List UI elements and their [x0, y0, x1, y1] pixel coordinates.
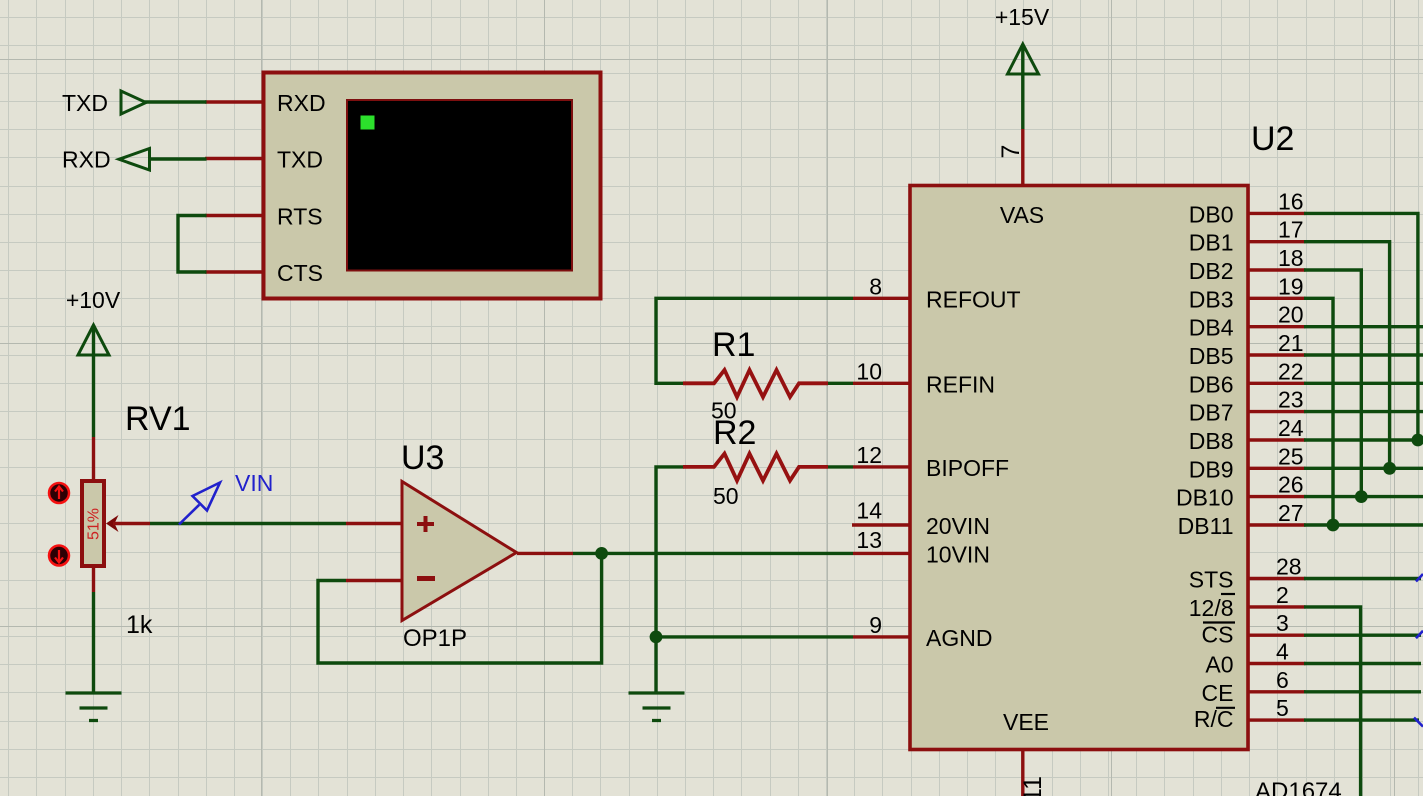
svg-text:RXD: RXD: [62, 147, 111, 173]
pin TXD (terminal): [205, 157, 263, 160]
pin 16 DB0: [1248, 212, 1306, 215]
svg-text:DB4: DB4: [1189, 315, 1234, 341]
wire R1 right to REFIN: [828, 382, 853, 385]
svg-text:A0: A0: [1205, 652, 1233, 678]
pin RV1 top: [92, 437, 95, 481]
svg-text:11: 11: [1019, 776, 1047, 796]
pin RXD (terminal): [205, 100, 263, 103]
pin 26 DB10: [1248, 495, 1306, 498]
pin 3 CS: [1248, 634, 1306, 637]
IC U2 body: [910, 186, 1248, 750]
pin 28 STS: [1248, 577, 1306, 580]
svg-text:CS: CS: [1202, 622, 1234, 648]
ground (under RV1): [66, 693, 122, 721]
svg-text:CE: CE: [1202, 680, 1234, 706]
wire RV1 to ground: [92, 592, 95, 693]
wire A0: [1304, 662, 1421, 665]
op-amp U3 body: [402, 482, 517, 621]
pin 6 CE: [1248, 690, 1306, 693]
svg-text:DB8: DB8: [1189, 428, 1234, 454]
pin 14 20VIN: [852, 523, 910, 526]
wire RXD to TXD pin: [148, 157, 207, 160]
svg-text:RXD: RXD: [277, 90, 326, 116]
svg-text:22: 22: [1278, 358, 1304, 384]
pin 25 DB9: [1248, 467, 1306, 470]
junction DB2/DB10: [1355, 490, 1368, 503]
wire CE: [1304, 690, 1421, 693]
svg-text:20VIN: 20VIN: [926, 513, 990, 539]
wire STS: [1304, 577, 1421, 580]
svg-text:24: 24: [1278, 415, 1304, 441]
wire output to 10VIN: [573, 552, 853, 555]
RV1 increment button: [49, 483, 69, 503]
svg-text:R/C: R/C: [1194, 706, 1234, 732]
terminal arrow TXD: [121, 91, 146, 114]
svg-text:5: 5: [1276, 695, 1289, 721]
RV1 wiper arrow: [106, 515, 119, 532]
svg-text:+10V: +10V: [66, 287, 121, 313]
ground (analog): [629, 693, 685, 721]
svg-text:RTS: RTS: [277, 204, 323, 230]
svg-text:DB11: DB11: [1178, 513, 1234, 539]
pin 19 DB3: [1248, 297, 1306, 300]
pin RV1 bottom: [92, 566, 95, 592]
pin 7 VAS: [1021, 129, 1024, 188]
pin 17 DB1: [1248, 240, 1306, 243]
svg-text:CTS: CTS: [277, 260, 323, 286]
pin 20 DB4: [1248, 325, 1306, 328]
wire DB6: [1304, 382, 1423, 385]
pin 21 DB5: [1248, 353, 1306, 356]
svg-text:REFIN: REFIN: [926, 371, 995, 397]
svg-text:3: 3: [1276, 610, 1289, 636]
svg-text:10VIN: 10VIN: [926, 541, 990, 567]
svg-text:RV1: RV1: [125, 400, 191, 438]
pin U3 + input: [346, 522, 402, 525]
pin 5 R/C: [1248, 718, 1306, 721]
pin RTS (terminal): [205, 214, 263, 217]
potentiometer RV1 body: [82, 481, 104, 566]
virtual terminal VT1 body: [264, 73, 601, 299]
svg-text:AGND: AGND: [926, 625, 992, 651]
svg-text:19: 19: [1278, 273, 1304, 299]
svg-text:25: 25: [1278, 443, 1304, 469]
probe VIN arrow: [179, 505, 199, 525]
virtual terminal screen: [347, 100, 572, 271]
wire DB1 fold to DB9: [1304, 242, 1390, 469]
svg-text:14: 14: [856, 497, 882, 523]
wire DB2 fold to DB10: [1304, 270, 1361, 497]
wire AGND junction to ground: [654, 637, 657, 693]
svg-text:7: 7: [997, 145, 1025, 159]
wire DB11: [1304, 523, 1423, 526]
pin 22 DB6: [1248, 382, 1306, 385]
wire DB0 fold to DB8: [1304, 213, 1418, 440]
junction DB3/DB11: [1327, 519, 1340, 532]
power +15V arrow symbol: [1008, 44, 1039, 74]
op-amp + symbol: [417, 516, 434, 532]
svg-text:TXD: TXD: [277, 147, 323, 173]
svg-text:DB7: DB7: [1189, 400, 1234, 426]
pin 23 DB7: [1248, 410, 1306, 413]
wire RV1 wiper to op-amp +: [150, 522, 346, 525]
svg-text:12/8: 12/8: [1189, 595, 1234, 621]
svg-text:DB2: DB2: [1189, 258, 1234, 284]
junction DB1/DB9: [1383, 462, 1396, 475]
svg-text:21: 21: [1278, 330, 1304, 356]
svg-text:AD1674: AD1674: [1255, 778, 1342, 796]
svg-text:TXD: TXD: [62, 90, 108, 116]
svg-text:U2: U2: [1251, 120, 1294, 158]
wire DB4: [1304, 325, 1423, 328]
pin 27 DB11: [1248, 523, 1306, 526]
svg-text:9: 9: [869, 612, 882, 638]
svg-text:VAS: VAS: [1000, 202, 1044, 228]
RV1 decrement button: [49, 546, 69, 566]
pin 4 A0: [1248, 662, 1306, 665]
wire feedback output to - input: [318, 553, 602, 663]
svg-text:27: 27: [1278, 500, 1304, 526]
wire CS: [1304, 634, 1421, 637]
wire TXD to RXD pin: [145, 100, 207, 103]
junction (AGND): [650, 631, 663, 644]
svg-text:26: 26: [1278, 472, 1304, 498]
svg-text:DB6: DB6: [1189, 371, 1234, 397]
svg-text:DB1: DB1: [1189, 230, 1234, 256]
pin 2 12/8: [1248, 605, 1306, 608]
terminal arrow CS (edge): [1416, 631, 1423, 639]
terminal arrow R/C (edge): [1414, 718, 1423, 727]
wire R/C: [1304, 718, 1419, 721]
svg-text:R1: R1: [712, 326, 755, 364]
wire AGND row: [656, 635, 853, 638]
resistor R2: [683, 454, 828, 481]
terminal arrow STS (edge): [1416, 574, 1423, 582]
svg-text:BIPOFF: BIPOFF: [926, 455, 1009, 481]
wire DB9: [1304, 467, 1423, 470]
pin 13 10VIN: [853, 552, 910, 555]
pin 9 AGND: [853, 635, 910, 638]
pin U3 - input: [346, 579, 402, 582]
svg-text:OP1P: OP1P: [403, 625, 467, 652]
svg-text:8: 8: [869, 273, 882, 299]
wire RTS-CTS loopback: [178, 216, 207, 273]
power +10V arrow symbol: [78, 325, 109, 355]
svg-text:1k: 1k: [126, 611, 153, 639]
svg-text:4: 4: [1276, 639, 1289, 665]
svg-text:DB9: DB9: [1189, 456, 1234, 482]
pin CTS (terminal): [205, 270, 263, 273]
svg-text:R2: R2: [713, 414, 756, 452]
svg-text:DB5: DB5: [1189, 343, 1234, 369]
svg-text:VIN: VIN: [235, 470, 273, 496]
junction (op-amp output): [595, 547, 608, 560]
svg-text:50: 50: [713, 483, 739, 509]
pin 24 DB8: [1248, 438, 1306, 441]
terminal arrow RXD: [119, 149, 150, 171]
svg-text:6: 6: [1276, 667, 1289, 693]
svg-text:17: 17: [1278, 217, 1304, 243]
svg-text:16: 16: [1278, 188, 1304, 214]
op-amp - symbol: [417, 576, 435, 581]
wire DB8: [1304, 438, 1423, 441]
svg-text:STS: STS: [1189, 567, 1234, 593]
wire DB7: [1304, 410, 1423, 413]
pin 10 REFIN: [853, 382, 910, 385]
pin 12 BIPOFF: [853, 465, 910, 468]
svg-text:2: 2: [1276, 582, 1289, 608]
svg-text:DB3: DB3: [1189, 286, 1234, 312]
wire R2 left vertical: [656, 467, 684, 637]
svg-text:12: 12: [856, 442, 882, 468]
svg-text:REFOUT: REFOUT: [926, 286, 1021, 312]
svg-text:23: 23: [1278, 387, 1304, 413]
svg-text:18: 18: [1278, 245, 1304, 271]
wire DB10: [1304, 495, 1423, 498]
svg-text:20: 20: [1278, 302, 1304, 328]
wire R2 right to BIPOFF: [828, 465, 853, 468]
svg-text:13: 13: [856, 527, 882, 553]
junction DB0/DB8: [1412, 434, 1423, 447]
pin 11 VEE: [1021, 748, 1024, 796]
wire +10V to RV1: [92, 325, 95, 437]
pin U3 output: [517, 552, 573, 555]
svg-text:51%: 51%: [86, 508, 103, 540]
wire DB5: [1304, 353, 1423, 356]
svg-text:VEE: VEE: [1003, 709, 1049, 735]
terminal cursor block: [361, 116, 375, 130]
wire REFOUT to R1 left: [656, 298, 853, 383]
svg-text:10: 10: [856, 358, 882, 384]
wire +15V to VAS: [1021, 44, 1024, 129]
pin 8 REFOUT: [853, 297, 910, 300]
svg-text:DB10: DB10: [1176, 485, 1234, 511]
svg-text:DB0: DB0: [1189, 201, 1234, 227]
wire 12/8 down: [1304, 607, 1361, 796]
pin 18 DB2: [1248, 268, 1306, 271]
svg-text:+15V: +15V: [995, 4, 1050, 30]
svg-text:28: 28: [1276, 554, 1302, 580]
svg-text:U3: U3: [401, 439, 444, 477]
resistor R1: [683, 370, 828, 397]
wire DB3 fold to DB11: [1304, 298, 1333, 525]
